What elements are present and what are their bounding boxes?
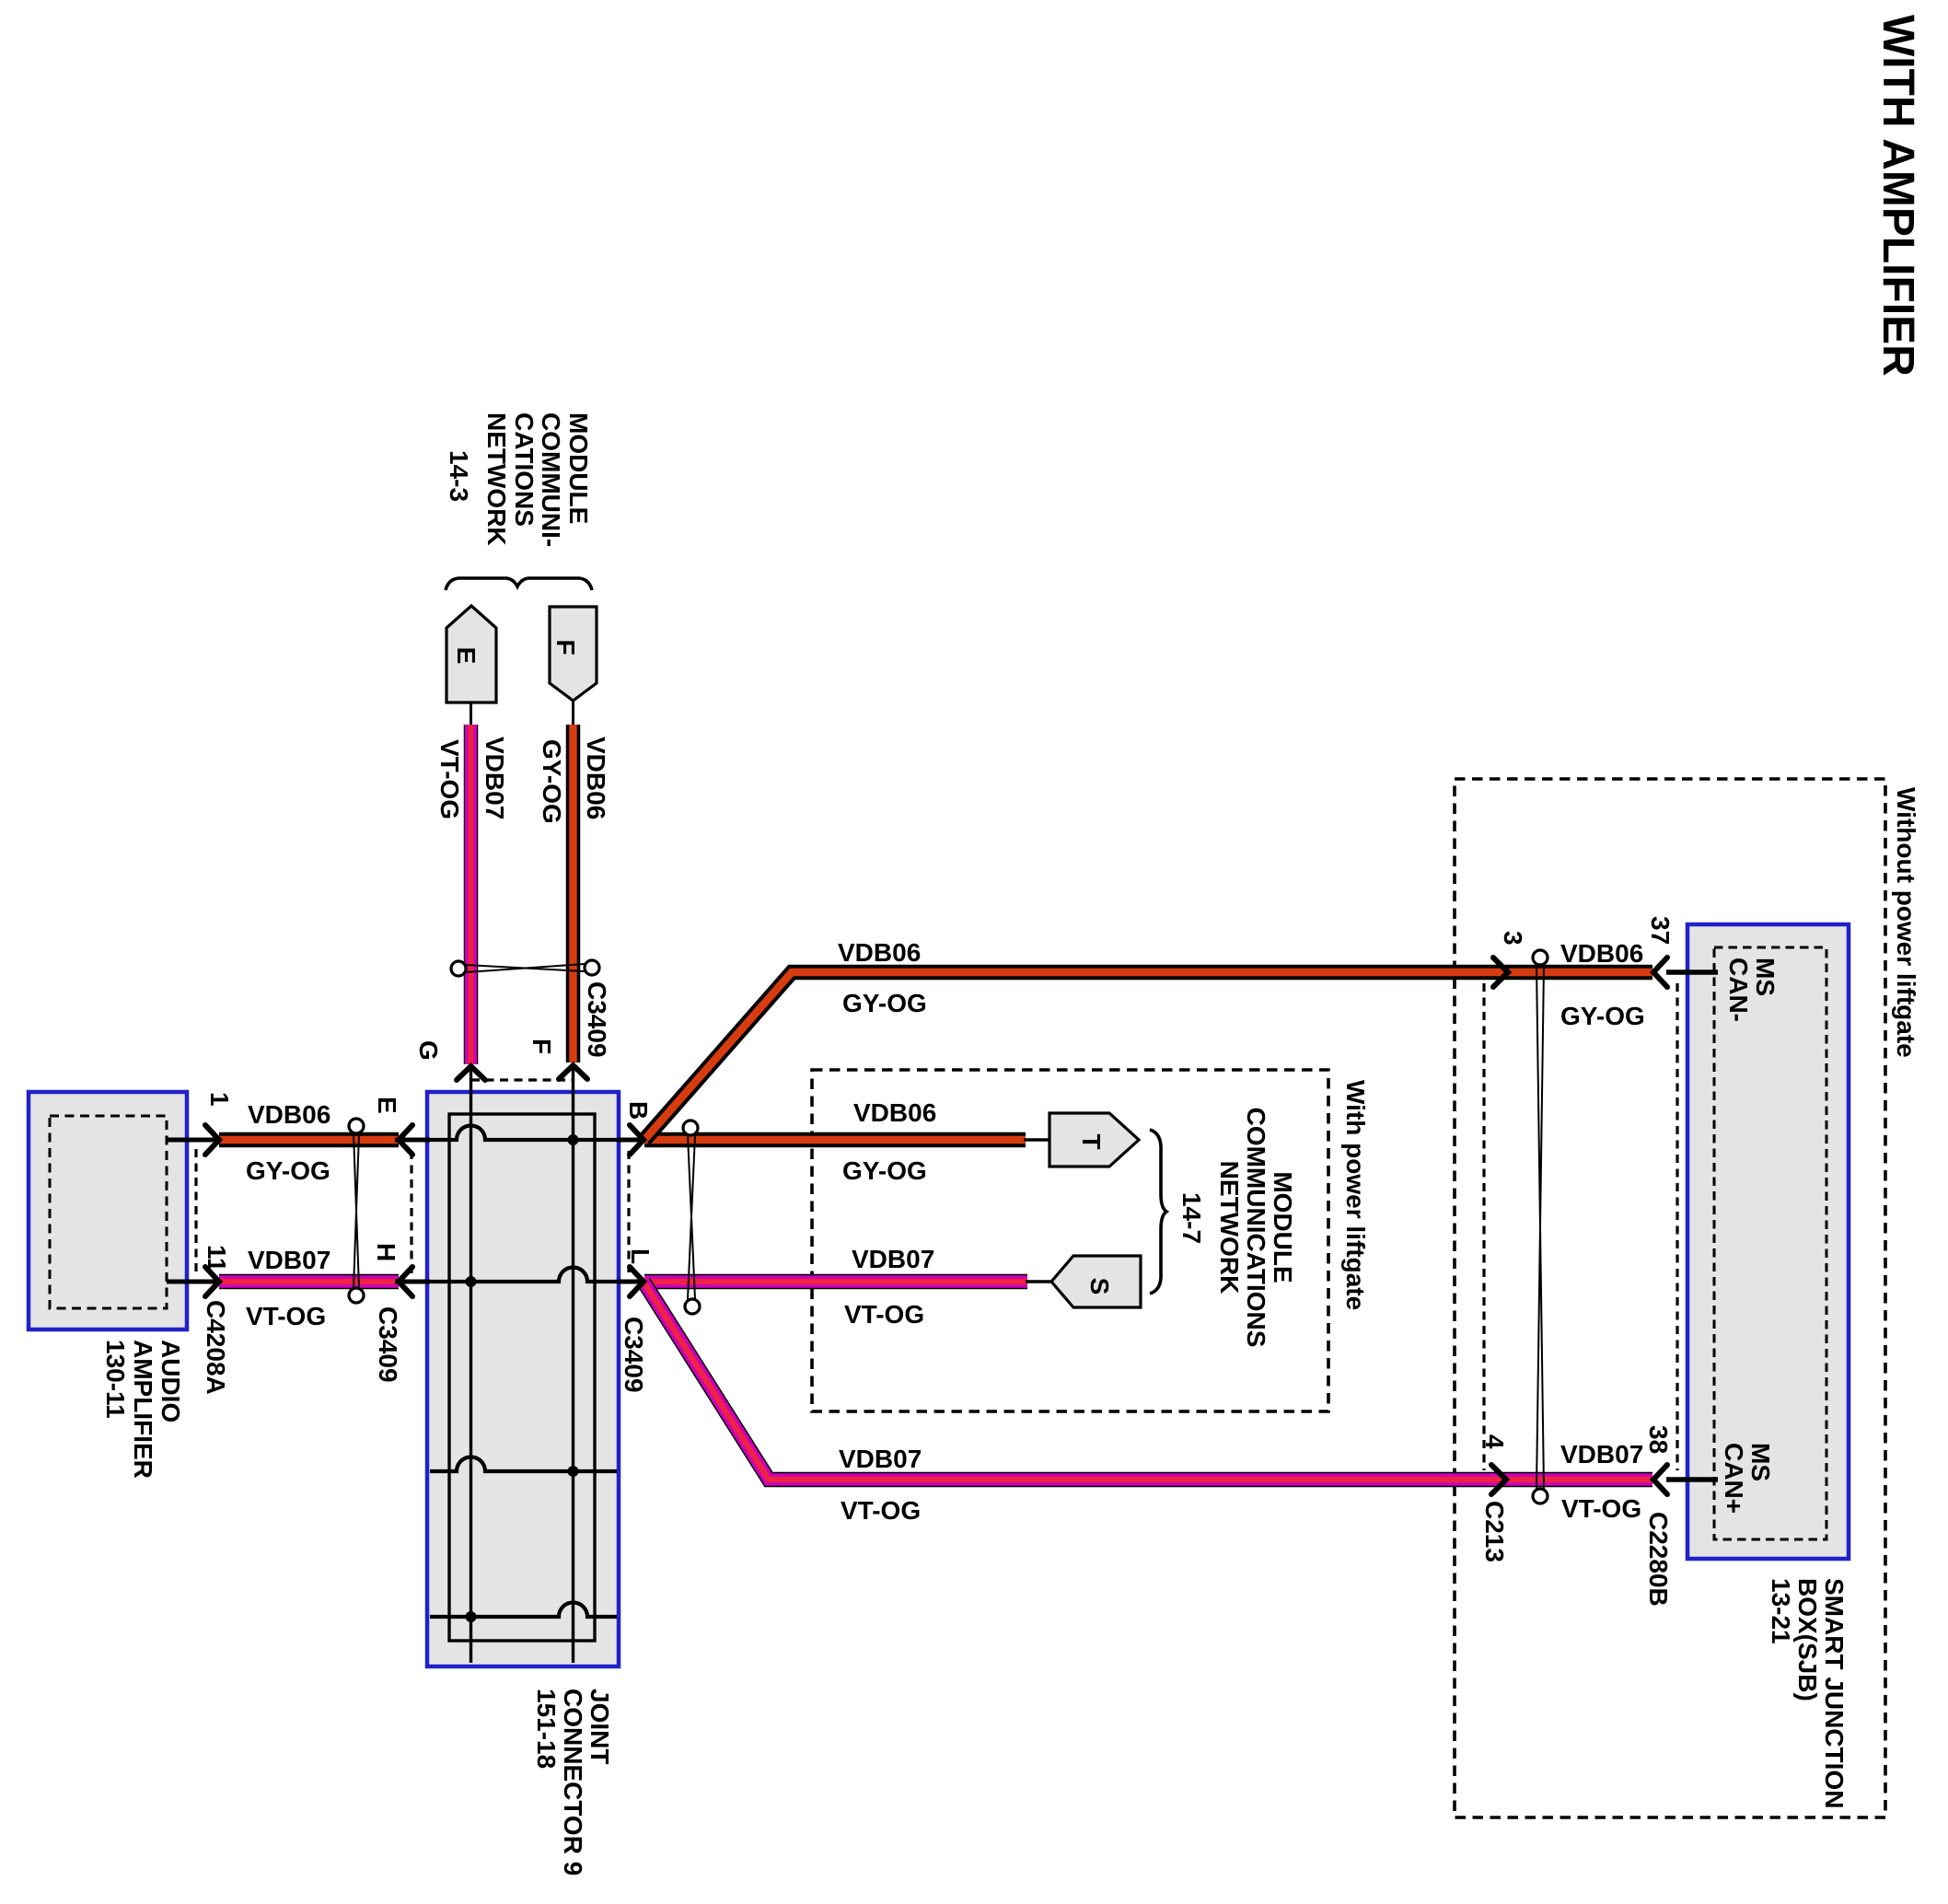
svg-text:VDB07: VDB07 bbox=[839, 1445, 922, 1473]
wire VDB06 stub to pentagon T bbox=[1024, 1138, 1051, 1142]
wire VDB07 vertical from pentagon E bbox=[470, 702, 472, 1064]
svg-text:GY-OG: GY-OG bbox=[1560, 1002, 1645, 1030]
wire VDB06 black under E arrow bbox=[395, 1138, 430, 1143]
wire label VDB07 at amplifier bbox=[248, 1246, 330, 1274]
joint connector bus 1 bbox=[470, 1068, 472, 1663]
svg-text:WITH AMPLIFIER: WITH AMPLIFIER bbox=[1873, 15, 1922, 377]
audio amplifier box bbox=[29, 1092, 187, 1329]
svg-text:F: F bbox=[551, 639, 580, 655]
pentagon letter T bbox=[1077, 1133, 1106, 1149]
svg-text:E: E bbox=[452, 647, 481, 665]
wire label GY-OG at pentagon T bbox=[842, 1156, 927, 1185]
svg-text:VDB06: VDB06 bbox=[1560, 939, 1643, 968]
svg-text:L: L bbox=[626, 1248, 655, 1264]
wire VDB07 stub from amplifier pin 11 bbox=[167, 1280, 221, 1284]
pin label F bbox=[528, 1039, 556, 1054]
wire VDB07 amplifier to joint connector bbox=[219, 1274, 399, 1290]
wire VDB06 amplifier to joint connector bbox=[219, 1132, 399, 1148]
label MODULE COMMUNICATIONS NETWORK 14-7 bbox=[1177, 1108, 1297, 1348]
connector label C213 bbox=[1480, 1501, 1509, 1562]
connector C3409 right circle top bbox=[683, 1120, 698, 1135]
wire label VDB06 at SJB bbox=[1560, 939, 1643, 968]
svg-text:MS: MS bbox=[1751, 958, 1780, 996]
smart junction box bbox=[1687, 924, 1849, 1559]
svg-text:GY-OG: GY-OG bbox=[538, 739, 566, 824]
svg-text:C2280B: C2280B bbox=[1644, 1512, 1673, 1607]
brace over pentagons E F bbox=[446, 578, 592, 590]
label MS CAN+ bbox=[1720, 1443, 1775, 1514]
svg-text:T: T bbox=[1077, 1133, 1106, 1149]
connector C213 crossing line bbox=[1536, 965, 1544, 1489]
wire label GY-OG vertical bbox=[538, 739, 566, 824]
svg-text:MODULE: MODULE bbox=[1269, 1171, 1297, 1283]
pentagon E bbox=[446, 606, 496, 702]
pin H arrow bbox=[399, 1267, 412, 1296]
label JOINT CONNECTOR 9 151-18 bbox=[532, 1689, 614, 1875]
pin label 37 bbox=[1646, 916, 1675, 945]
wire VDB06 vertical from pentagon F bbox=[572, 701, 574, 1062]
connector label C4208A bbox=[202, 1300, 230, 1395]
pin label G bbox=[414, 1040, 443, 1061]
pin label 38 bbox=[1644, 1425, 1673, 1454]
pin L arrow bbox=[630, 1267, 644, 1296]
wire VDB07 diagonal joint connector to SJB pin 38 bbox=[644, 1282, 1652, 1480]
pentagon T bbox=[1049, 1113, 1139, 1167]
joint connector row H-L with bump over bus2 bbox=[430, 1268, 617, 1283]
svg-text:AUDIO: AUDIO bbox=[157, 1340, 185, 1422]
joint connector inner rect bbox=[449, 1114, 595, 1641]
wire label VDB07 at pentagon S bbox=[852, 1245, 934, 1273]
svg-text:14-3: 14-3 bbox=[445, 450, 473, 502]
connector C3409 left circle bottom bbox=[349, 1288, 364, 1303]
svg-text:JOINT: JOINT bbox=[586, 1689, 614, 1764]
wire label VDB07 vertical bbox=[481, 737, 509, 819]
pin 4 arrow bbox=[1491, 1465, 1506, 1494]
connector face dash C2280B bbox=[1676, 983, 1678, 1470]
svg-text:GY-OG: GY-OG bbox=[246, 1156, 330, 1185]
wire label VDB06 at pentagon T bbox=[853, 1098, 936, 1127]
connector label C3409 top bbox=[583, 981, 611, 1058]
connector face dash C3409 left bbox=[410, 1151, 412, 1274]
junction dot row3 bus2 bbox=[568, 1466, 579, 1477]
svg-text:COMMUNICATIONS: COMMUNICATIONS bbox=[1242, 1108, 1270, 1348]
connector face dash C213 bbox=[1482, 983, 1485, 1470]
pentagon S bbox=[1051, 1256, 1141, 1307]
svg-text:VT-OG: VT-OG bbox=[246, 1302, 326, 1330]
wire label VDB06 vertical bbox=[582, 737, 610, 819]
smart junction box inner dashed box bbox=[1714, 947, 1826, 1539]
label Without power liftgate bbox=[1892, 787, 1920, 1058]
svg-text:MODULE: MODULE bbox=[564, 412, 593, 524]
wire label VT-OG at pentagon S bbox=[844, 1300, 924, 1329]
svg-text:13-21: 13-21 bbox=[1767, 1578, 1795, 1644]
connector face dash C3409 right bbox=[627, 1151, 630, 1272]
junction dot row4 bus1 bbox=[466, 1611, 477, 1622]
svg-text:Without power liftgate: Without power liftgate bbox=[1892, 787, 1920, 1058]
wire VDB07 black under L arrow bbox=[617, 1280, 644, 1284]
wire label GY-OG at SJB bbox=[1560, 1002, 1645, 1030]
connector C213 circle top bbox=[1533, 950, 1548, 965]
svg-text:CATIONS: CATIONS bbox=[510, 412, 539, 527]
svg-text:MS: MS bbox=[1746, 1443, 1775, 1481]
svg-text:NETWORK: NETWORK bbox=[1215, 1161, 1244, 1294]
label AUDIO AMPLIFIER 130-11 bbox=[101, 1340, 185, 1479]
svg-text:VDB06: VDB06 bbox=[582, 737, 610, 819]
pin 1 arrow bbox=[205, 1125, 219, 1155]
svg-text:VDB06: VDB06 bbox=[853, 1098, 936, 1127]
pentagon letter E bbox=[452, 647, 481, 665]
connector face dash C4208A bbox=[194, 1149, 197, 1274]
pin 11 arrow bbox=[205, 1267, 219, 1296]
svg-text:151-18: 151-18 bbox=[532, 1689, 561, 1769]
wire stub SJB pin 37 bbox=[1666, 969, 1718, 975]
svg-text:VT-OG: VT-OG bbox=[1561, 1494, 1641, 1523]
dashed box Without power liftgate bbox=[1455, 779, 1885, 1817]
wire label VT-OG lower run left bbox=[841, 1496, 921, 1525]
svg-text:AMPLIFIER: AMPLIFIER bbox=[129, 1340, 157, 1479]
svg-text:VT-OG: VT-OG bbox=[435, 739, 464, 819]
joint connector box bbox=[427, 1092, 619, 1666]
audio amplifier inner dashed box bbox=[50, 1116, 167, 1308]
connector label C3409 right bbox=[620, 1317, 648, 1393]
svg-text:BOX(SJB): BOX(SJB) bbox=[1793, 1578, 1822, 1701]
pentagon F bbox=[550, 607, 597, 701]
title WITH AMPLIFIER bbox=[1873, 15, 1922, 377]
pin F arrow bbox=[559, 1065, 587, 1079]
svg-text:COMMUNI-: COMMUNI- bbox=[537, 412, 565, 547]
svg-text:C3409: C3409 bbox=[374, 1306, 402, 1383]
svg-text:VDB07: VDB07 bbox=[481, 737, 509, 819]
label MODULE COMMUNI- CATIONS NETWORK 14-3 bbox=[445, 412, 593, 547]
svg-text:CONNECTOR 9: CONNECTOR 9 bbox=[559, 1689, 587, 1875]
svg-text:F: F bbox=[528, 1039, 556, 1054]
connector face dash C3409 top bbox=[471, 1078, 573, 1081]
dashed box With power liftgate bbox=[812, 1070, 1328, 1411]
svg-text:H: H bbox=[372, 1243, 400, 1261]
svg-text:38: 38 bbox=[1644, 1425, 1673, 1454]
wire label VDB07 at SJB bbox=[1560, 1440, 1643, 1469]
connector label C3409 left bbox=[374, 1306, 402, 1383]
svg-text:CAN+: CAN+ bbox=[1720, 1443, 1748, 1514]
svg-text:B: B bbox=[624, 1101, 653, 1120]
connector C3409 left circle top bbox=[349, 1119, 364, 1133]
wire label GY-OG upper run left bbox=[842, 989, 927, 1017]
wire label VT-OG at amplifier bbox=[246, 1302, 326, 1330]
svg-text:GY-OG: GY-OG bbox=[842, 1156, 927, 1185]
wire VDB06 diagonal joint connector to SJB pin 37 bbox=[644, 972, 1652, 1140]
label MS CAN- bbox=[1724, 958, 1780, 1022]
wire label VDB06 upper run left bbox=[838, 938, 921, 967]
connector C3409 right crossing line bbox=[688, 1135, 695, 1299]
svg-text:CAN-: CAN- bbox=[1724, 958, 1753, 1022]
svg-text:With power liftgate: With power liftgate bbox=[1341, 1080, 1370, 1310]
pin label E bbox=[373, 1097, 401, 1114]
wire VDB07 stub to pentagon S bbox=[1026, 1280, 1053, 1283]
pin 38 arrow bbox=[1653, 1465, 1667, 1494]
pin label H bbox=[372, 1243, 400, 1261]
wire VDB06 stub from amplifier pin 1 bbox=[167, 1138, 221, 1143]
joint connector bus 2 bbox=[572, 1066, 574, 1663]
svg-text:VT-OG: VT-OG bbox=[844, 1300, 924, 1329]
svg-text:130-11: 130-11 bbox=[101, 1340, 130, 1419]
label SMART JUNCTION BOX(SJB) 13-21 bbox=[1767, 1578, 1849, 1808]
joint connector row 4 with bump over bus2 bbox=[430, 1603, 617, 1618]
joint connector row E-B with bump over bus1 bbox=[430, 1126, 617, 1141]
svg-text:11: 11 bbox=[203, 1245, 231, 1272]
wire VDB06 joint connector to pentagon T bbox=[644, 1132, 1026, 1148]
pin label 11 bbox=[203, 1245, 231, 1272]
svg-text:14-7: 14-7 bbox=[1177, 1192, 1206, 1244]
pin label L bbox=[626, 1248, 655, 1264]
pin B arrow bbox=[630, 1125, 644, 1155]
svg-text:C3409: C3409 bbox=[583, 981, 611, 1058]
pin 37 arrow bbox=[1653, 958, 1667, 987]
svg-text:NETWORK: NETWORK bbox=[482, 412, 511, 546]
pin label 4 bbox=[1480, 1434, 1509, 1449]
svg-text:3: 3 bbox=[1499, 931, 1527, 946]
pin label 1 bbox=[205, 1092, 234, 1107]
svg-text:C3409: C3409 bbox=[620, 1317, 648, 1393]
svg-text:VDB07: VDB07 bbox=[248, 1246, 330, 1274]
svg-text:C213: C213 bbox=[1480, 1501, 1509, 1562]
svg-text:VDB06: VDB06 bbox=[838, 938, 921, 967]
wire label GY-OG at amplifier bbox=[246, 1156, 330, 1185]
svg-text:G: G bbox=[414, 1040, 443, 1061]
wire label VDB07 lower run left bbox=[839, 1445, 922, 1473]
svg-text:C4208A: C4208A bbox=[202, 1300, 230, 1395]
svg-text:VT-OG: VT-OG bbox=[841, 1496, 921, 1525]
junction dot row2 bus1 bbox=[466, 1276, 477, 1287]
wire stub SJB pin 38 bbox=[1666, 1477, 1718, 1482]
svg-text:4: 4 bbox=[1480, 1434, 1509, 1449]
pin label 3 bbox=[1499, 931, 1527, 946]
svg-text:VDB07: VDB07 bbox=[1560, 1440, 1643, 1469]
connector C3409 top circle left bbox=[451, 961, 466, 976]
pin 3 arrow bbox=[1493, 958, 1508, 987]
svg-text:SMART JUNCTION: SMART JUNCTION bbox=[1820, 1578, 1849, 1808]
svg-text:GY-OG: GY-OG bbox=[842, 989, 927, 1017]
svg-text:E: E bbox=[373, 1097, 401, 1114]
label With power liftgate bbox=[1341, 1080, 1370, 1310]
pin G arrow bbox=[457, 1066, 485, 1080]
wire label VT-OG at SJB bbox=[1561, 1494, 1641, 1523]
pentagon letter S bbox=[1085, 1278, 1114, 1295]
connector label C2280B bbox=[1644, 1512, 1673, 1607]
connector C3409 right circle bottom bbox=[685, 1299, 700, 1314]
pentagon letter F bbox=[551, 639, 580, 655]
wire label VT-OG vertical bbox=[435, 739, 464, 819]
svg-text:37: 37 bbox=[1646, 916, 1675, 945]
svg-text:1: 1 bbox=[205, 1092, 234, 1107]
svg-text:VDB07: VDB07 bbox=[852, 1245, 934, 1273]
wire VDB07 joint connector to pentagon S bbox=[644, 1274, 1027, 1290]
pin E arrow bbox=[399, 1125, 412, 1155]
connector C3409 top crossing line bbox=[466, 964, 585, 972]
junction dot row1 bus2 bbox=[568, 1134, 579, 1145]
wire VDB06 black under B arrow bbox=[617, 1138, 644, 1143]
brace for network 14-7 bbox=[1150, 1130, 1166, 1294]
joint connector row 3 with bump over bus1 bbox=[430, 1457, 617, 1472]
pin label B bbox=[624, 1101, 653, 1120]
svg-text:S: S bbox=[1085, 1278, 1114, 1295]
connector C3409 left crossing line bbox=[354, 1133, 359, 1288]
wire label VDB06 at amplifier bbox=[248, 1100, 330, 1129]
connector C213 circle bottom bbox=[1533, 1489, 1548, 1503]
connector C3409 top circle right bbox=[585, 960, 599, 975]
svg-text:VDB06: VDB06 bbox=[248, 1100, 330, 1129]
wire VDB07 black under H arrow bbox=[395, 1280, 430, 1284]
